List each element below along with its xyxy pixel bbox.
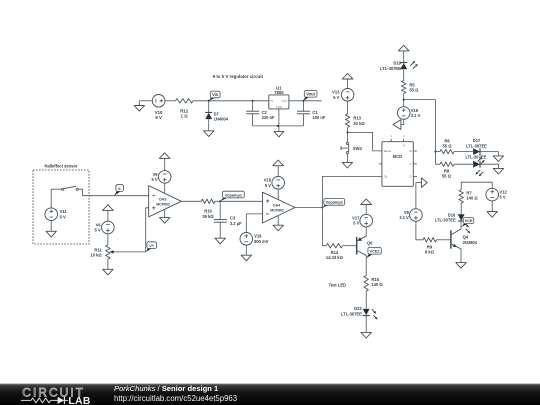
LED D16 <box>435 213 470 234</box>
ground (V11) <box>46 221 56 237</box>
wire (to LED rail) <box>404 100 436 165</box>
svg-text:140 Ω: 140 Ω <box>371 282 383 287</box>
svg-text:1 Ω: 1 Ω <box>181 114 189 119</box>
svg-text:PorkChunks / Senior design 1: PorkChunks / Senior design 1 <box>114 384 219 393</box>
LED D18 <box>465 155 486 176</box>
svg-text:5 V: 5 V <box>500 195 506 200</box>
resistor R9 <box>423 238 437 255</box>
svg-text:LAB: LAB <box>68 396 90 405</box>
text label: 9 to 5 V regulator circuit <box>213 74 264 79</box>
svg-text:20 kΩ: 20 kΩ <box>353 121 365 126</box>
wire <box>193 100 253 102</box>
svg-text:BCD: BCD <box>393 154 402 159</box>
power arrow (V13) <box>342 73 353 88</box>
ground (V10) <box>134 101 152 111</box>
capacitor C3 <box>214 201 242 238</box>
dashed box: Halleffect sensor <box>33 164 89 244</box>
svg-text:3.1 V: 3.1 V <box>399 215 409 220</box>
regulator U1 7805 <box>269 85 289 109</box>
resistor R15 <box>364 276 383 292</box>
ground (V12) <box>487 201 497 217</box>
svg-text:14.33 kΩ: 14.33 kΩ <box>326 255 344 260</box>
wire <box>107 234 109 245</box>
wire (OA3 out) <box>181 200 201 202</box>
svg-text:5 V: 5 V <box>265 183 271 188</box>
resistor R6 <box>440 139 454 154</box>
ground (D7) <box>204 119 214 136</box>
svg-text:VCE2: VCE2 <box>370 248 381 253</box>
capacitor C2 <box>246 100 275 126</box>
wire <box>460 203 462 214</box>
resistor R8 <box>440 162 454 179</box>
wire (Vout stub) <box>304 100 322 102</box>
switch SW4 <box>341 142 362 153</box>
voltage source V19 <box>240 233 269 246</box>
svg-text:OUT: OUT <box>282 99 288 103</box>
ground (R11) <box>103 259 113 275</box>
pin stub (BCD left NC) <box>379 163 382 165</box>
svg-text:10 kΩ: 10 kΩ <box>90 253 102 258</box>
power arrow (V18) <box>273 160 284 176</box>
wire <box>480 164 498 168</box>
svg-text:220 nF: 220 nF <box>262 115 275 120</box>
svg-text:3.1 V: 3.1 V <box>411 113 421 118</box>
transistor Q6 <box>357 236 373 255</box>
wire (OA4 out) <box>295 207 323 209</box>
wire (to OA3 -) <box>78 189 148 196</box>
voltage source V8 <box>399 209 422 222</box>
svg-text:55 Ω: 55 Ω <box>443 144 453 149</box>
svg-text:Test LED: Test LED <box>329 283 346 288</box>
ground (U1) <box>274 131 284 137</box>
svg-text:Vopamp1: Vopamp1 <box>225 192 243 197</box>
node Vout <box>304 90 318 100</box>
voltage source V12 <box>486 188 508 201</box>
wire <box>435 163 440 165</box>
wire (to BCD Ck) <box>322 176 382 207</box>
svg-text:LTL-307EE: LTL-307EE <box>380 66 401 71</box>
wire (U1 OUT) <box>289 100 304 102</box>
svg-text:55 Ω: 55 Ω <box>442 174 452 179</box>
svg-text:LTL-307EE: LTL-307EE <box>465 155 486 160</box>
wire <box>365 227 367 236</box>
svg-text:8 kΩ: 8 kΩ <box>425 250 435 255</box>
junction <box>434 151 436 153</box>
wire <box>416 221 423 240</box>
svg-text:9 V: 9 V <box>155 115 162 120</box>
wire (OA3 V+) <box>164 183 166 193</box>
svg-text:LTL-307EE: LTL-307EE <box>341 311 362 316</box>
svg-text:OA3: OA3 <box>159 197 167 201</box>
svg-text:7805: 7805 <box>274 90 284 95</box>
wire (R7 top rail) <box>461 182 492 189</box>
svg-text:LTL-307EE: LTL-307EE <box>435 218 456 223</box>
node V+ <box>146 242 157 252</box>
voltage source V17 <box>352 214 372 227</box>
ground (SW4) <box>342 154 352 168</box>
resistor R13 <box>345 114 365 128</box>
wire <box>454 151 473 153</box>
svg-text:C: C <box>410 162 412 166</box>
svg-text:9 to 5 V regulator circuit: 9 to 5 V regulator circuit <box>213 74 264 79</box>
LED D17 <box>466 138 487 164</box>
svg-text:A: A <box>403 143 405 147</box>
svg-text:VCE: VCE <box>465 219 473 223</box>
svg-text:Halleffect sensor: Halleffect sensor <box>45 164 78 169</box>
svg-text:5 V: 5 V <box>151 177 157 182</box>
resistor R14 <box>326 244 344 261</box>
svg-text:140 Ω: 140 Ω <box>466 196 478 201</box>
svg-text:Reset: Reset <box>384 149 392 153</box>
ground (D22) <box>361 316 371 338</box>
wire <box>454 163 473 165</box>
svg-text:5 V: 5 V <box>60 214 66 219</box>
svg-text:1N4004: 1N4004 <box>214 117 229 122</box>
svg-text:SW4: SW4 <box>353 146 363 151</box>
footer bar: CircuitLab <box>0 384 540 405</box>
ground (V8, rotated) <box>421 178 427 188</box>
power arrow (V17) <box>361 199 372 214</box>
ground (D17) <box>493 156 503 162</box>
voltage source V13 <box>332 89 354 102</box>
LED D19 <box>380 61 417 71</box>
pin stub (BCD B) <box>413 150 417 152</box>
pin stubs (BCD top) <box>390 134 405 142</box>
svg-text:Vin: Vin <box>212 92 219 97</box>
wire <box>322 208 326 246</box>
svg-text:LTL-307EE: LTL-307EE <box>466 143 487 148</box>
voltage source V10 <box>152 95 165 121</box>
wire (to BCD Reset) <box>348 132 382 151</box>
capacitor C1 <box>297 100 326 126</box>
wire (ground rail) <box>253 109 304 131</box>
voltage source V16 <box>397 107 420 120</box>
svg-text:Vout: Vout <box>306 91 315 96</box>
wire <box>403 70 405 81</box>
voltage source V18 <box>264 177 285 190</box>
svg-text:2N3904: 2N3904 <box>463 240 478 245</box>
svg-text:3.3 µF: 3.3 µF <box>230 221 242 226</box>
ground (D18) <box>493 168 503 174</box>
resistor R5 <box>402 81 420 94</box>
voltage source V9 <box>151 171 171 184</box>
switch (hall sensor) <box>62 186 79 190</box>
wire <box>435 151 440 153</box>
svg-text:IN: IN <box>270 99 273 103</box>
ground (Q4) <box>456 249 466 268</box>
potentiometer R11 <box>90 245 145 259</box>
ground (C3) <box>215 238 225 244</box>
node Vin junction <box>208 100 210 102</box>
wire <box>343 245 357 247</box>
svg-text:Ck: Ck <box>384 174 388 178</box>
svg-text:GND: GND <box>276 105 282 109</box>
wire <box>365 255 367 275</box>
wire <box>403 94 405 107</box>
voltage source V6 <box>95 221 115 234</box>
svg-text:5 V: 5 V <box>333 95 339 100</box>
wire <box>416 183 422 209</box>
wire <box>480 152 498 156</box>
wire <box>347 101 349 114</box>
wire (V+ to OA3 +) <box>146 208 149 252</box>
node VCE2 <box>366 247 381 258</box>
node V- <box>114 185 124 196</box>
wire (OA4 -) <box>246 214 262 233</box>
wire (OA3 V-) <box>164 209 166 217</box>
svg-text:900 mV: 900 mV <box>254 239 269 244</box>
pin stub (BCD D) <box>413 175 417 177</box>
wire (OA4 V-) <box>277 216 279 225</box>
diode D7 <box>205 101 228 122</box>
wire <box>215 200 263 202</box>
text label: Test LED <box>329 283 346 288</box>
svg-text:55 Ω: 55 Ω <box>409 88 419 93</box>
svg-text:B: B <box>410 149 412 153</box>
svg-text:http://circuitlab.com/c52ue4et: http://circuitlab.com/c52ue4et5p963 <box>114 394 237 403</box>
svg-text:5 V: 5 V <box>95 228 101 233</box>
wire <box>365 291 367 309</box>
op-amp OA4 <box>263 192 296 223</box>
svg-text:MCP602: MCP602 <box>156 202 170 206</box>
wire <box>437 239 451 241</box>
wire (U1 IN) <box>253 100 269 102</box>
svg-text:Vopamp2: Vopamp2 <box>326 200 344 205</box>
LED D22 <box>341 306 377 319</box>
logic block BCD <box>382 142 413 187</box>
svg-text:100 nF: 100 nF <box>312 115 325 120</box>
svg-text:MCP602: MCP602 <box>270 208 284 212</box>
resistor R10 <box>201 199 215 219</box>
node VCE <box>461 218 474 228</box>
power arrow (V9) <box>159 153 170 171</box>
ground (OA4) <box>273 225 283 231</box>
resistor R12 <box>176 99 194 119</box>
node Vopamp1 <box>220 191 244 201</box>
power arrow (V6) <box>103 205 114 221</box>
power arrow (D19) <box>398 45 409 62</box>
voltage source V11 <box>45 208 67 221</box>
ground (V16, rotated) <box>393 119 404 129</box>
node Vin <box>209 91 220 101</box>
pin stub (BCD C) <box>413 163 417 165</box>
node Vopamp2 <box>322 199 344 208</box>
ground (OA3) <box>160 218 170 224</box>
op-amp OA3 <box>149 186 182 217</box>
svg-text:39 kΩ: 39 kΩ <box>202 214 214 219</box>
svg-text:5 V: 5 V <box>353 221 359 226</box>
resistor R7 <box>459 190 478 203</box>
wire <box>460 221 462 229</box>
wire <box>347 127 349 142</box>
svg-text:D: D <box>410 174 412 178</box>
wire <box>51 189 61 208</box>
svg-text:OA4: OA4 <box>273 203 282 207</box>
transistor Q4 <box>451 229 478 249</box>
svg-text:Q6: Q6 <box>367 240 373 245</box>
wire <box>165 100 176 102</box>
ground (V19) <box>241 245 251 261</box>
svg-text:V+: V+ <box>149 243 155 248</box>
wire (OA4 V+) <box>277 189 279 200</box>
